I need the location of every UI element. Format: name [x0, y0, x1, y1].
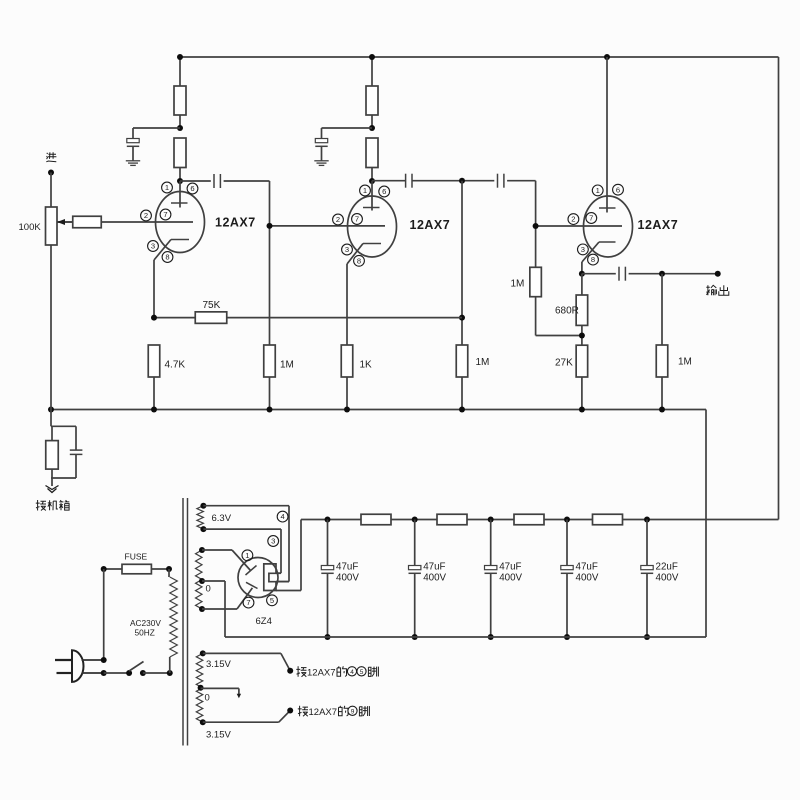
svg-text:AC230V: AC230V: [130, 618, 161, 628]
svg-text:5: 5: [360, 669, 364, 676]
svg-text:1: 1: [363, 186, 367, 195]
svg-text:400V: 400V: [499, 572, 522, 583]
svg-text:12AX7: 12AX7: [215, 216, 256, 230]
svg-text:6.3V: 6.3V: [212, 513, 232, 524]
svg-text:3.15V: 3.15V: [206, 659, 231, 670]
svg-text:6: 6: [190, 184, 194, 193]
svg-text:5: 5: [270, 596, 274, 605]
svg-text:1M: 1M: [280, 360, 294, 371]
svg-text:1M: 1M: [476, 357, 490, 368]
svg-text:4: 4: [350, 669, 354, 676]
svg-text:400V: 400V: [576, 572, 599, 583]
svg-text:8: 8: [357, 256, 361, 265]
svg-text:2: 2: [571, 215, 575, 224]
svg-text:12AX7: 12AX7: [307, 668, 336, 679]
svg-text:50HZ: 50HZ: [135, 628, 155, 638]
svg-text:1: 1: [596, 186, 600, 195]
svg-text:3: 3: [151, 242, 155, 251]
svg-text:6: 6: [616, 185, 620, 194]
svg-text:47uF: 47uF: [499, 562, 521, 573]
svg-text:3.15V: 3.15V: [206, 730, 231, 741]
svg-text:400V: 400V: [423, 572, 446, 583]
svg-text:3: 3: [345, 245, 349, 254]
svg-text:1: 1: [245, 551, 249, 560]
svg-text:2: 2: [144, 211, 148, 220]
svg-text:8: 8: [591, 255, 595, 264]
svg-text:1: 1: [165, 183, 169, 192]
svg-text:4.7K: 4.7K: [165, 360, 186, 371]
svg-text:7: 7: [589, 214, 593, 223]
svg-text:75K: 75K: [203, 300, 221, 311]
svg-text:100K: 100K: [19, 222, 42, 233]
svg-text:FUSE: FUSE: [125, 552, 148, 562]
svg-text:3: 3: [581, 245, 585, 254]
svg-text:7: 7: [163, 210, 167, 219]
svg-text:27K: 27K: [555, 358, 573, 369]
svg-text:6: 6: [382, 187, 386, 196]
svg-text:22uF: 22uF: [656, 562, 678, 573]
svg-text:6Z4: 6Z4: [256, 616, 272, 627]
svg-text:400V: 400V: [336, 572, 359, 583]
svg-text:12AX7: 12AX7: [638, 218, 679, 232]
svg-text:4: 4: [280, 512, 284, 521]
svg-text:2: 2: [336, 215, 340, 224]
svg-text:1M: 1M: [678, 357, 692, 368]
svg-text:3: 3: [271, 537, 275, 546]
svg-text:400V: 400V: [656, 572, 679, 583]
svg-text:0: 0: [205, 693, 210, 704]
svg-text:7: 7: [355, 215, 359, 224]
svg-text:1K: 1K: [360, 360, 373, 371]
svg-text:680R: 680R: [555, 306, 579, 317]
svg-text:8: 8: [165, 253, 169, 262]
svg-text:0: 0: [206, 584, 211, 595]
svg-text:1M: 1M: [511, 279, 525, 290]
svg-text:47uF: 47uF: [336, 562, 358, 573]
svg-text:9: 9: [351, 708, 355, 715]
svg-text:7: 7: [246, 598, 250, 607]
svg-text:47uF: 47uF: [576, 562, 598, 573]
svg-text:12AX7: 12AX7: [309, 707, 338, 718]
svg-text:47uF: 47uF: [423, 562, 445, 573]
svg-text:12AX7: 12AX7: [410, 218, 451, 232]
